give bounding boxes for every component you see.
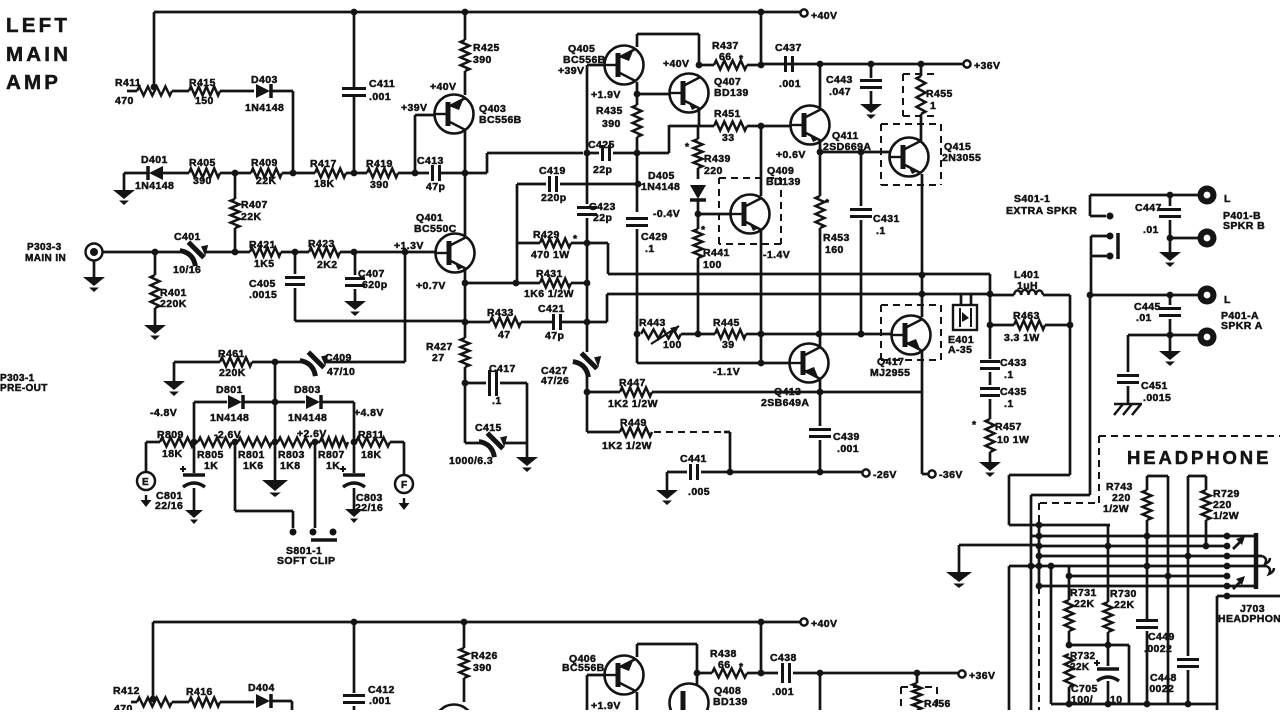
wire <box>404 252 407 362</box>
wire <box>729 432 732 472</box>
diode D405 <box>690 185 706 199</box>
wire <box>464 173 467 236</box>
wire <box>636 644 639 657</box>
wire <box>154 11 800 14</box>
svg-text:D801: D801 <box>216 384 243 396</box>
capacitor C438 <box>781 663 784 683</box>
svg-text:.001: .001 <box>779 78 801 90</box>
svg-text:.0022: .0022 <box>1144 643 1172 655</box>
svg-text:R426: R426 <box>471 650 498 662</box>
capacitor C407 <box>354 252 357 275</box>
capacitor C427 <box>586 322 589 352</box>
svg-text:R409: R409 <box>251 157 278 169</box>
wire <box>521 321 553 324</box>
svg-text:C419: C419 <box>539 165 566 177</box>
wire <box>607 293 990 296</box>
wire <box>698 213 732 216</box>
node junction <box>584 280 591 287</box>
wire <box>560 183 638 186</box>
svg-text:1K6: 1K6 <box>243 460 263 472</box>
node junction <box>513 280 520 287</box>
svg-text:390: 390 <box>193 175 212 187</box>
svg-text:1K2 1/2W: 1K2 1/2W <box>602 440 652 452</box>
wire <box>272 700 292 703</box>
capacitor C409 <box>300 344 333 377</box>
svg-text:*: * <box>701 224 706 236</box>
ground <box>1169 335 1172 351</box>
wire <box>819 228 822 334</box>
wire <box>668 125 671 153</box>
svg-text:22p: 22p <box>593 212 612 224</box>
wire <box>587 674 604 677</box>
wire <box>636 94 639 105</box>
jack P401-A upper <box>1198 286 1217 305</box>
wire <box>1069 325 1072 475</box>
wire <box>1167 476 1170 576</box>
resistor R445 <box>715 330 746 339</box>
ground <box>666 472 669 490</box>
capacitor C448 <box>1177 658 1199 661</box>
svg-text:C431: C431 <box>873 213 900 225</box>
wire <box>244 401 305 404</box>
svg-text:47p: 47p <box>545 330 564 342</box>
svg-text:MAIN IN: MAIN IN <box>25 253 66 264</box>
node junction <box>152 249 159 256</box>
svg-text:1N4148: 1N4148 <box>245 102 284 114</box>
wire <box>173 362 176 381</box>
svg-text:1000/6.3: 1000/6.3 <box>449 455 493 467</box>
wire <box>697 168 700 179</box>
svg-text:R443: R443 <box>639 317 666 329</box>
svg-text:.0022: .0022 <box>1146 683 1174 695</box>
svg-text:-0.4V: -0.4V <box>653 208 680 220</box>
node junction <box>817 670 824 677</box>
wire <box>561 321 607 324</box>
ground <box>526 443 529 457</box>
node junction <box>462 319 469 326</box>
svg-text:*: * <box>972 419 977 431</box>
svg-text:C433: C433 <box>1000 357 1027 369</box>
svg-text:2N3055: 2N3055 <box>942 152 981 164</box>
svg-text:R449: R449 <box>620 417 647 429</box>
svg-text:+39V: +39V <box>401 102 427 114</box>
svg-text:+0.7V: +0.7V <box>416 280 446 292</box>
wire <box>761 63 963 66</box>
svg-text:.1: .1 <box>1004 369 1014 381</box>
node junction <box>1066 642 1073 649</box>
svg-text:R419: R419 <box>366 158 393 170</box>
svg-text:R421: R421 <box>249 239 276 251</box>
svg-text:66: 66 <box>718 659 730 671</box>
svg-text:100: 100 <box>703 259 722 271</box>
resistor R811 <box>356 438 390 447</box>
wire <box>697 258 700 334</box>
node junction <box>232 170 239 177</box>
resistor R439 <box>697 126 700 139</box>
wire <box>921 174 924 294</box>
wire <box>667 471 687 474</box>
resistor R801 <box>238 438 272 447</box>
wire <box>464 367 467 443</box>
node E <box>137 472 155 490</box>
svg-text:1/2W: 1/2W <box>1213 510 1239 522</box>
svg-text:1: 1 <box>930 100 936 112</box>
dashed box around R455 <box>903 73 938 75</box>
svg-text:-2.6V: -2.6V <box>214 429 241 441</box>
terminal +36V <box>963 60 970 67</box>
capacitor C421 <box>552 314 555 330</box>
ground <box>262 480 288 491</box>
wire <box>346 172 367 175</box>
svg-text:L: L <box>1224 294 1231 306</box>
wire <box>1090 256 1093 295</box>
wire <box>819 379 822 392</box>
svg-text:R433: R433 <box>487 307 514 319</box>
wire <box>123 173 126 190</box>
resistor R743 with hanger <box>1147 475 1168 478</box>
resistor R423 <box>309 248 340 257</box>
node junction <box>919 272 926 279</box>
wire <box>761 672 778 675</box>
svg-text:R441: R441 <box>703 247 730 259</box>
wire <box>921 352 924 392</box>
resistor R429 <box>540 239 571 248</box>
svg-text:18K: 18K <box>361 449 381 461</box>
svg-text:R447: R447 <box>619 377 646 389</box>
wire <box>636 82 639 94</box>
svg-text:470: 470 <box>114 703 133 710</box>
wire <box>220 90 254 93</box>
svg-text:.0015: .0015 <box>1143 392 1171 404</box>
resistor R435 <box>633 105 642 137</box>
svg-text:R811: R811 <box>358 429 384 441</box>
svg-text:R461: R461 <box>218 348 245 360</box>
svg-text:R809: R809 <box>157 429 184 441</box>
svg-text:2SB649A: 2SB649A <box>761 397 809 409</box>
resistor R412 <box>131 701 137 704</box>
svg-text:R453: R453 <box>823 232 850 244</box>
node junction <box>151 84 158 91</box>
transistor Q408 (partial) <box>670 684 709 715</box>
terminal -36V <box>928 470 935 477</box>
node junction <box>584 240 591 247</box>
wire <box>1068 631 1071 645</box>
node junction <box>696 62 703 69</box>
svg-text:C447: C447 <box>1135 202 1162 214</box>
ground <box>144 325 166 334</box>
capacitor C431 <box>860 152 863 206</box>
wire <box>516 184 519 283</box>
node junction <box>1036 583 1043 590</box>
wire <box>465 282 540 285</box>
wire <box>636 229 639 334</box>
wire <box>1128 645 1131 704</box>
svg-text:MAIN: MAIN <box>6 43 71 66</box>
resistor R451 <box>714 122 747 131</box>
terminal +36V <box>958 670 965 677</box>
wire <box>760 126 763 196</box>
wire <box>1128 334 1198 337</box>
wire <box>464 131 467 173</box>
wire <box>1089 295 1092 495</box>
node junction <box>1036 553 1043 560</box>
capacitor C803 <box>353 442 356 473</box>
svg-text:+36V: +36V <box>969 670 995 682</box>
svg-text:-26V: -26V <box>873 469 897 481</box>
svg-text:33: 33 <box>722 132 734 144</box>
node junction <box>232 249 239 256</box>
wire <box>586 65 589 204</box>
node junction <box>987 322 994 329</box>
node junction <box>292 249 299 256</box>
svg-text:D403: D403 <box>251 74 278 86</box>
node junction <box>462 380 469 387</box>
resistor R416 <box>189 698 220 707</box>
wire <box>102 251 184 254</box>
node junction <box>1167 332 1174 339</box>
transistor Q406 <box>605 656 644 695</box>
resistor R447 <box>620 388 652 397</box>
wire <box>636 34 639 47</box>
resistor R405 <box>189 169 220 178</box>
resistor R421 <box>250 248 281 257</box>
wire <box>636 692 639 710</box>
wire <box>793 672 958 675</box>
wire <box>526 383 529 443</box>
svg-text:+39V: +39V <box>558 65 584 77</box>
wire <box>637 93 669 96</box>
capacitor C439 <box>819 392 822 426</box>
svg-text:47/10: 47/10 <box>327 366 355 378</box>
resistor R732 <box>1065 654 1074 687</box>
wire <box>353 402 356 442</box>
node junction <box>272 399 279 406</box>
wire <box>669 125 714 128</box>
svg-text:1K6 1/2W: 1K6 1/2W <box>524 288 574 300</box>
ground <box>860 104 882 113</box>
wire <box>571 242 608 245</box>
svg-text:R405: R405 <box>189 157 216 169</box>
wire <box>272 441 278 444</box>
svg-text:C438: C438 <box>770 652 797 664</box>
wire <box>747 125 761 128</box>
capacitor C441 <box>689 464 692 480</box>
wire <box>819 142 822 152</box>
svg-text:R439: R439 <box>704 153 731 165</box>
wire <box>272 90 293 93</box>
svg-text:47/26: 47/26 <box>541 375 569 387</box>
svg-text:1K2 1/2W: 1K2 1/2W <box>608 398 658 410</box>
capacitor C405 <box>294 252 297 274</box>
inductor L401 <box>1014 290 1043 295</box>
svg-text:A-35: A-35 <box>948 344 972 356</box>
switch S801-1 SOFT CLIP <box>290 529 297 536</box>
wire <box>1167 576 1170 704</box>
svg-text:C439: C439 <box>833 431 860 443</box>
chassis ground <box>1114 403 1142 406</box>
svg-text:R455: R455 <box>926 88 953 100</box>
svg-text:C411: C411 <box>369 78 395 90</box>
svg-text:150: 150 <box>195 95 214 107</box>
transistor Q403 <box>435 95 474 134</box>
resistor R409 <box>251 169 282 178</box>
capacitor C445 <box>1169 295 1172 305</box>
node junction <box>987 291 994 298</box>
svg-text:.001: .001 <box>772 686 794 698</box>
connector P303-3 MAIN IN <box>86 244 103 261</box>
wire <box>587 431 620 434</box>
wire <box>1068 566 1071 576</box>
resistor R729 with hanger <box>1188 475 1206 478</box>
svg-text:22K: 22K <box>1070 662 1090 673</box>
diode D401 <box>124 172 147 175</box>
svg-text:R431: R431 <box>536 268 563 280</box>
resistor R453 <box>819 152 822 196</box>
svg-text:SPKR A: SPKR A <box>1221 320 1263 332</box>
node junction <box>635 181 642 188</box>
node junction <box>272 439 279 446</box>
capacitor C451 <box>1127 335 1130 372</box>
wire <box>761 333 891 336</box>
wire <box>1039 565 1227 568</box>
node junction <box>1067 322 1074 329</box>
dashed box around R456 <box>900 687 902 710</box>
svg-text:-36V: -36V <box>939 469 963 481</box>
ground <box>1169 238 1172 252</box>
wire <box>172 701 189 704</box>
wire <box>990 294 1014 297</box>
capacitor C449 <box>1136 619 1158 622</box>
resistor R438 <box>712 669 747 678</box>
wire <box>990 324 1014 327</box>
svg-text:*: * <box>685 141 690 153</box>
svg-text:BD139: BD139 <box>714 87 749 99</box>
wire <box>398 172 429 175</box>
svg-text:D803: D803 <box>294 384 321 396</box>
svg-text:R435: R435 <box>596 105 623 117</box>
ground <box>185 510 203 518</box>
svg-text:-1.1V: -1.1V <box>713 366 740 378</box>
transistor Q405 <box>587 64 606 67</box>
node junction <box>695 331 702 338</box>
diode D404 <box>256 694 270 708</box>
svg-text:BC556B: BC556B <box>479 114 522 126</box>
svg-text:+2.6V: +2.6V <box>297 428 327 440</box>
capacitor C435 <box>980 387 1000 390</box>
node junction <box>584 150 591 157</box>
wire <box>194 441 198 444</box>
wire <box>1039 585 1227 588</box>
dashed box around Q417 <box>881 304 941 306</box>
node junction <box>817 61 824 68</box>
wire <box>324 361 405 364</box>
resistor R419 <box>367 169 398 178</box>
resistor R415 <box>189 87 220 96</box>
ground <box>344 301 366 310</box>
node junction <box>351 249 358 256</box>
svg-text:27: 27 <box>432 352 444 364</box>
svg-text:+40V: +40V <box>430 81 456 93</box>
svg-text:R417: R417 <box>310 158 337 170</box>
node junction <box>1087 292 1094 299</box>
wire <box>587 391 620 394</box>
node junction <box>1036 543 1043 550</box>
svg-text:.01: .01 <box>1136 312 1152 324</box>
capacitor C425 <box>601 145 604 161</box>
node junction <box>758 62 765 69</box>
wire <box>636 334 639 363</box>
node junction <box>1167 192 1174 199</box>
svg-text:C443: C443 <box>826 74 853 86</box>
svg-text:470 1W: 470 1W <box>531 249 570 261</box>
jack P401-B lower <box>1198 229 1217 248</box>
node junction <box>232 439 239 446</box>
wire <box>282 172 315 175</box>
wire <box>760 231 763 363</box>
wire <box>699 64 714 67</box>
terminal -26V <box>862 469 869 476</box>
capacitor C433 <box>989 325 992 359</box>
svg-text:EXTRA SPKR: EXTRA SPKR <box>1006 205 1077 217</box>
rheostat R443 <box>641 330 681 339</box>
svg-text:1N4148: 1N4148 <box>641 181 680 193</box>
svg-text:160: 160 <box>825 244 844 256</box>
wire <box>760 622 763 673</box>
node junction <box>412 170 419 177</box>
wire <box>146 441 160 444</box>
wire <box>746 333 761 336</box>
wire <box>921 392 924 474</box>
wire <box>1051 703 1217 706</box>
svg-text:+36V: +36V <box>974 60 1000 72</box>
node junction <box>1036 522 1043 529</box>
ground <box>345 509 363 517</box>
svg-text:1/2W: 1/2W <box>1103 503 1129 515</box>
transistor Q401 <box>436 234 475 273</box>
svg-text:47p: 47p <box>426 181 445 193</box>
svg-text:620p: 620p <box>362 279 388 291</box>
wire <box>587 152 599 155</box>
wire <box>220 701 254 704</box>
svg-text:D404: D404 <box>248 682 275 694</box>
wire <box>93 261 96 277</box>
wire <box>636 137 639 212</box>
resistor R449 <box>620 428 652 437</box>
svg-text:1uH: 1uH <box>1017 280 1038 292</box>
transistor Q409 <box>731 195 770 234</box>
node junction <box>727 469 734 476</box>
wire (dashed segment) <box>654 431 726 433</box>
wire <box>1069 295 1072 325</box>
dashed box around Q409 <box>719 177 781 179</box>
ground <box>83 277 105 286</box>
svg-text:47: 47 <box>498 329 510 341</box>
resistor R431 <box>540 279 571 288</box>
svg-text:.001: .001 <box>369 695 391 707</box>
wire <box>252 361 303 364</box>
wire <box>234 442 237 511</box>
svg-text:R411: R411 <box>115 77 141 89</box>
svg-text:1N4148: 1N4148 <box>135 180 174 192</box>
svg-text:HEADPHON: HEADPHON <box>1218 613 1280 625</box>
svg-text:+40V: +40V <box>663 58 689 70</box>
svg-text:1N4148: 1N4148 <box>210 412 249 424</box>
node junction <box>858 149 865 156</box>
node junction <box>634 150 641 157</box>
svg-text:.001: .001 <box>369 91 391 103</box>
wire <box>608 273 990 276</box>
svg-text:18K: 18K <box>314 178 334 190</box>
